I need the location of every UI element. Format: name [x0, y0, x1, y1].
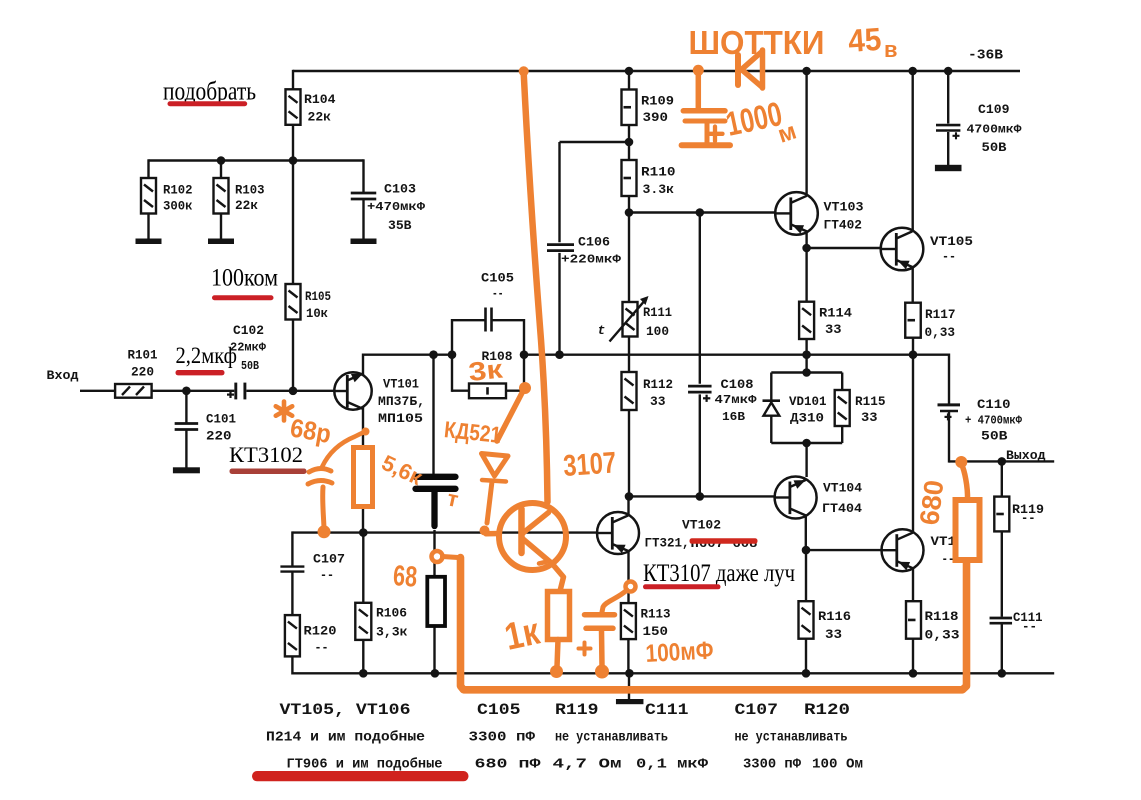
svg-text:ГТ321,: ГТ321, — [645, 536, 690, 551]
svg-text:t: t — [598, 323, 606, 338]
svg-text:R115: R115 — [855, 394, 886, 409]
svg-text:R113: R113 — [641, 607, 671, 622]
svg-text:100ком: 100ком — [211, 265, 278, 292]
svg-text:VT103: VT103 — [824, 200, 864, 215]
svg-text:3300 пФ: 3300 пФ — [469, 731, 537, 746]
svg-text:R120: R120 — [804, 701, 850, 719]
svg-text:4,7 Ом: 4,7 Ом — [553, 758, 622, 773]
svg-text:в: в — [884, 37, 898, 62]
svg-text:C107: C107 — [313, 552, 345, 567]
svg-text:C105: C105 — [477, 701, 521, 719]
svg-text:R106: R106 — [376, 606, 407, 621]
svg-text:33: 33 — [650, 394, 666, 409]
svg-text:C106: C106 — [578, 235, 610, 250]
svg-text:VT104: VT104 — [823, 481, 862, 496]
svg-text:22к: 22к — [235, 198, 258, 213]
svg-text:C111: C111 — [645, 701, 689, 719]
svg-text:45: 45 — [847, 21, 882, 59]
svg-text:680: 680 — [914, 478, 949, 526]
svg-text:0,1 мкФ: 0,1 мкФ — [636, 758, 709, 773]
svg-text:4700мкФ: 4700мкФ — [967, 123, 1023, 137]
svg-text:VT105, VT106: VT105, VT106 — [280, 701, 411, 719]
svg-text:R103: R103 — [235, 183, 265, 198]
svg-text:ШОТТКИ: ШОТТКИ — [689, 24, 825, 61]
svg-text:--: -- — [315, 640, 329, 655]
svg-text:R104: R104 — [304, 92, 336, 107]
svg-text:16В: 16В — [722, 410, 745, 424]
svg-text:3107: 3107 — [562, 446, 617, 483]
svg-text:35В: 35В — [388, 218, 412, 233]
svg-text:ГТ402: ГТ402 — [824, 218, 863, 233]
svg-text:-36В: -36В — [968, 48, 1004, 64]
svg-text:Вход: Вход — [47, 368, 79, 383]
svg-text:50В: 50В — [982, 140, 1007, 155]
svg-text:0,33: 0,33 — [925, 628, 960, 643]
svg-text:+470мкФ: +470мкФ — [367, 200, 426, 214]
svg-text:R116: R116 — [818, 609, 851, 624]
svg-text:R114: R114 — [819, 306, 852, 321]
svg-text:220: 220 — [131, 365, 154, 380]
svg-text:220: 220 — [206, 429, 232, 444]
svg-text:100 Ом: 100 Ом — [812, 758, 863, 773]
svg-text:R119: R119 — [555, 701, 599, 719]
svg-text:+ 4700мкФ: + 4700мкФ — [965, 414, 1023, 428]
svg-text:+220мкФ: +220мкФ — [561, 253, 622, 267]
svg-text:КТ3107 даже луч: КТ3107 даже луч — [643, 558, 795, 587]
svg-text:100: 100 — [646, 324, 669, 339]
svg-text:ГТ404: ГТ404 — [822, 501, 862, 516]
svg-text:VT1: VT1 — [931, 534, 957, 549]
svg-text:VD101: VD101 — [789, 394, 827, 409]
svg-text:47мкФ: 47мкФ — [715, 393, 758, 407]
svg-text:680 пФ: 680 пФ — [475, 758, 542, 773]
svg-text:R110: R110 — [641, 165, 676, 180]
svg-text:3300 пФ: 3300 пФ — [743, 758, 802, 773]
svg-text:22к: 22к — [308, 110, 332, 125]
svg-text:R109: R109 — [641, 94, 674, 109]
svg-text:VT102: VT102 — [682, 518, 721, 533]
svg-text:--: -- — [492, 286, 504, 301]
svg-text:3.3к: 3.3к — [643, 182, 675, 197]
svg-text:не устанавливать: не устанавливать — [735, 731, 848, 746]
svg-text:10к: 10к — [306, 306, 328, 321]
svg-text:390: 390 — [643, 110, 669, 125]
svg-text:68: 68 — [392, 560, 418, 594]
svg-text:C109: C109 — [978, 102, 1010, 117]
svg-text:МП37Б,: МП37Б, — [378, 394, 425, 409]
svg-text:100мФ: 100мФ — [645, 636, 714, 668]
svg-text:C105: C105 — [481, 271, 514, 286]
svg-text:0,33: 0,33 — [925, 325, 956, 340]
svg-text:Выход: Выход — [1006, 448, 1046, 463]
svg-text:не устанавливать: не устанавливать — [555, 731, 668, 746]
svg-text:--: -- — [1022, 619, 1037, 634]
svg-text:33: 33 — [861, 410, 878, 425]
svg-text:33: 33 — [825, 322, 842, 337]
svg-text:3к: 3к — [467, 353, 505, 387]
svg-text:C102: C102 — [233, 323, 264, 338]
svg-text:МП105: МП105 — [378, 411, 423, 426]
svg-text:C101: C101 — [206, 412, 236, 427]
svg-text:C107: C107 — [735, 701, 779, 719]
svg-text:подобрать: подобрать — [163, 77, 256, 106]
svg-text:КТ3102: КТ3102 — [229, 442, 303, 467]
svg-text:П214 и им подобные: П214 и им подобные — [266, 730, 425, 746]
svg-text:C103: C103 — [384, 182, 416, 197]
svg-text:VT101: VT101 — [383, 377, 419, 392]
svg-text:R117: R117 — [925, 307, 956, 322]
svg-text:--: -- — [942, 249, 956, 264]
svg-text:R120: R120 — [304, 624, 337, 639]
svg-text:R118: R118 — [925, 609, 959, 624]
svg-text:3,3к: 3,3к — [376, 625, 408, 640]
svg-text:C108: C108 — [721, 377, 754, 392]
svg-text:R102: R102 — [163, 183, 193, 198]
svg-text:VT105: VT105 — [930, 234, 973, 249]
svg-text:300к: 300к — [163, 199, 193, 214]
svg-text:33: 33 — [825, 627, 842, 642]
svg-text:R112: R112 — [643, 377, 673, 392]
svg-text:ГТ906 и им подобные: ГТ906 и им подобные — [287, 757, 443, 773]
svg-text:2,2мкф: 2,2мкф — [176, 343, 238, 368]
svg-text:R111: R111 — [643, 305, 672, 320]
svg-text:50В: 50В — [241, 359, 259, 373]
svg-text:C110: C110 — [977, 397, 1011, 412]
svg-text:50В: 50В — [981, 429, 1008, 444]
svg-text:Д310: Д310 — [790, 411, 824, 426]
svg-text:--: -- — [1021, 511, 1036, 526]
svg-text:150: 150 — [643, 624, 669, 639]
svg-text:R105: R105 — [305, 289, 331, 304]
svg-text:R101: R101 — [128, 348, 158, 363]
svg-text:--: -- — [320, 568, 334, 583]
